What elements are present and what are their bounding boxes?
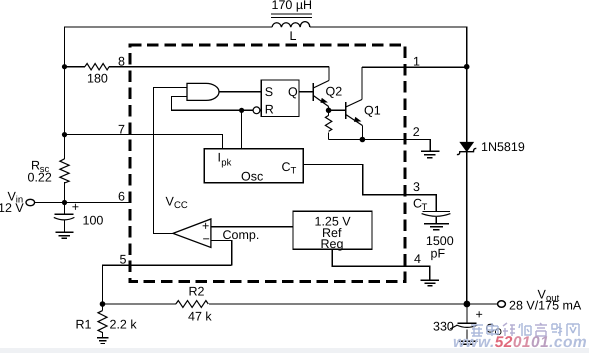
svg-text:C: C [282, 160, 291, 174]
svg-text:+: + [202, 219, 209, 233]
svg-text:330: 330 [433, 320, 454, 334]
svg-text:Comp.: Comp. [223, 228, 260, 242]
svg-text:−: − [203, 232, 210, 246]
svg-text:T: T [422, 202, 428, 213]
svg-text:+: + [72, 200, 79, 214]
svg-text:5: 5 [120, 253, 127, 267]
svg-text:S: S [265, 85, 273, 99]
svg-text:7: 7 [118, 123, 125, 137]
svg-text:47 k: 47 k [188, 310, 212, 324]
svg-text:+: + [476, 307, 483, 321]
svg-text:www.520101.com: www.520101.com [453, 334, 587, 351]
svg-text:8: 8 [118, 55, 125, 69]
svg-text:1: 1 [413, 55, 420, 69]
svg-text:T: T [291, 166, 297, 177]
svg-text:6: 6 [118, 190, 125, 204]
svg-text:1N5819: 1N5819 [481, 140, 525, 154]
svg-text:Reg: Reg [321, 237, 344, 251]
svg-text:4: 4 [414, 252, 421, 266]
svg-text:R2: R2 [189, 285, 205, 299]
svg-text:Q1: Q1 [364, 104, 381, 118]
svg-text:2: 2 [413, 125, 420, 139]
svg-text:0.22: 0.22 [28, 171, 52, 185]
svg-text:L: L [290, 29, 297, 43]
svg-text:pk: pk [221, 158, 231, 169]
svg-text:Q: Q [288, 85, 298, 99]
svg-text:R: R [265, 103, 274, 117]
svg-text:12 V: 12 V [0, 201, 24, 215]
svg-text:R1: R1 [76, 318, 92, 332]
svg-text:170 µH: 170 µH [272, 0, 313, 12]
svg-text:CC: CC [174, 200, 188, 211]
svg-text:Q2: Q2 [326, 85, 343, 99]
svg-text:180: 180 [87, 72, 108, 86]
svg-text:pF: pF [431, 247, 446, 261]
svg-text:100: 100 [83, 214, 104, 228]
svg-text:28 V/175 mA: 28 V/175 mA [509, 299, 582, 313]
svg-text:Osc: Osc [241, 170, 263, 184]
svg-text:3: 3 [413, 180, 420, 194]
svg-text:2.2 k: 2.2 k [110, 318, 138, 332]
